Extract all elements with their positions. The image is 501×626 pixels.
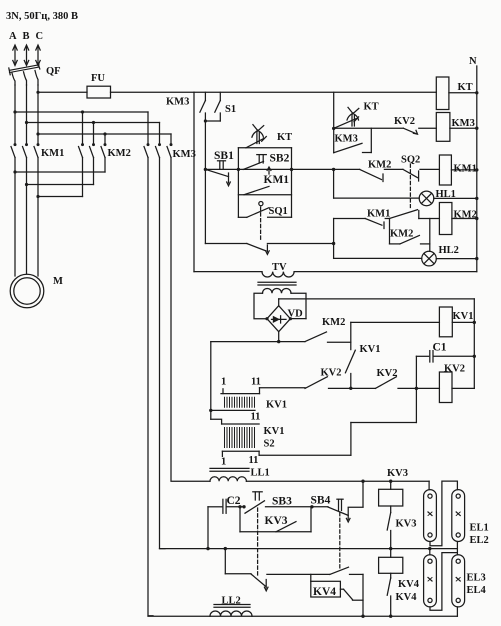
label KM1 (self-hold) [264, 174, 290, 186]
contactor KM3 main contacts [144, 112, 173, 158]
label KV4 (coil) [398, 579, 420, 590]
wire phase B drop with arrows [24, 45, 28, 66]
coil KV2 [439, 372, 474, 403]
svg-text:FU: FU [91, 73, 105, 84]
contactor KM2 main contacts [79, 112, 107, 197]
svg-text:KM2: KM2 [390, 229, 413, 240]
svg-text:KM3: KM3 [173, 149, 196, 160]
label KV2 (KM3 branch) [394, 116, 415, 127]
svg-text:KM1: KM1 [264, 174, 290, 186]
rectifier bridge VD [265, 306, 292, 332]
svg-text:C: C [36, 31, 44, 42]
svg-text:S1: S1 [225, 104, 236, 115]
label 11 (lower winding) [249, 455, 259, 466]
ladder left bus x238.4 [237, 148, 240, 218]
left lead vertical x210.8 [211, 342, 222, 424]
svg-text:KV2: KV2 [394, 116, 415, 127]
label N [469, 56, 477, 67]
svg-text:HL1: HL1 [436, 189, 456, 200]
lamp EL2 bottom stub [456, 542, 458, 549]
coil KT [436, 77, 449, 110]
bottom wire (y616.2) [148, 615, 457, 617]
transformer TV secondary winding [263, 288, 292, 293]
svg-text:SB4: SB4 [311, 495, 331, 507]
label 11 (between windings) [251, 412, 261, 423]
lamp branch HL1 (y198.1) [334, 197, 479, 200]
TV secondary lead left [254, 293, 267, 319]
ganged contact SB4' (row2) [330, 567, 363, 574]
pushbutton SB3 (NC) [245, 492, 314, 513]
label KM2 (coil) [454, 210, 477, 221]
transformer TV core [258, 282, 296, 285]
contact KV4 (after box) [344, 589, 364, 600]
contact KV2 (NO, KM3 branch) [403, 128, 436, 134]
svg-text:EL3: EL3 [467, 573, 486, 584]
label KV3 (self-hold) [265, 515, 288, 527]
label KV1 (contact) [360, 344, 381, 355]
svg-text:1: 1 [221, 457, 226, 468]
wire phase A drop with arrows [13, 45, 17, 66]
phase label A [9, 31, 17, 42]
transformer TV primary winding [262, 272, 294, 277]
label QF [46, 66, 61, 77]
svg-text:KT: KT [277, 132, 292, 143]
lamp EL4 top stub [456, 549, 458, 555]
contact KM2 (NC, HL2 sub-branch) [390, 219, 430, 252]
inductor LL2 core [214, 605, 250, 608]
series link EL3-EL4 [430, 553, 457, 611]
contact KV3 (NO vertical) [387, 513, 392, 551]
KM3 coil branch wire (y128.2) [334, 127, 404, 129]
fluorescent lamp EL1 [424, 490, 437, 542]
label C1 [433, 342, 447, 354]
row2 wire (y548.6) [160, 547, 458, 550]
svg-text:EL2: EL2 [470, 535, 489, 546]
svg-text:A: A [9, 31, 17, 42]
reversing crossover wire A-C (y172) [13, 170, 105, 173]
relay winding KV1 upper (taps 1-11) [221, 388, 305, 408]
bus rail B feed (y122.5) [25, 121, 160, 124]
svg-text:11: 11 [251, 412, 261, 423]
svg-text:C2: C2 [227, 495, 241, 507]
fluorescent lamp EL2 [452, 490, 465, 542]
self-hold contact KV3 (parallel SB3) [238, 505, 311, 532]
row1 riser x363 [362, 481, 364, 507]
wire phase C to KM1 [37, 85, 39, 143]
svg-text:KM3: KM3 [452, 118, 475, 129]
fluorescent lamp EL4 [452, 555, 465, 607]
relay winding KV1 lower (S2) [222, 424, 260, 457]
right bus vertical x474.3 [473, 299, 475, 389]
svg-text:KV1: KV1 [266, 400, 287, 411]
svg-text:KV3: KV3 [265, 515, 288, 527]
label KV1 (coil) [453, 311, 474, 322]
pushbutton SB2 (NO on rail) [243, 155, 271, 174]
phase label C [36, 31, 44, 42]
ladder right bus x291.5 [290, 148, 293, 218]
time contact KT (NC with flag, KM3 coil branch) [334, 107, 359, 128]
label KM3 (coil) [452, 118, 475, 129]
pushbutton SB1 (NC) [204, 161, 231, 186]
winding KV1 upper bottom lead [209, 409, 255, 412]
svg-text:KV4: KV4 [313, 586, 336, 598]
mechanical link SQ2 (dashed) [409, 164, 411, 208]
label KM3 (power bank) [173, 149, 196, 160]
coil KM3 [436, 113, 478, 142]
label KV2 (coil) [444, 364, 465, 375]
label KM2 (HL2 sub-branch) [390, 229, 413, 240]
label KM2 (KV1 row) [322, 317, 345, 328]
svg-text:KV4: KV4 [396, 592, 418, 603]
coil KV4 [379, 549, 403, 578]
label EL3 [467, 573, 486, 584]
svg-text:C1: C1 [433, 342, 447, 354]
KV1 coil feed wire (y322.4) [351, 322, 440, 349]
label EL1 [470, 523, 489, 534]
label SB1 [214, 150, 234, 162]
label SB2 [270, 153, 290, 165]
svg-text:KM3: KM3 [166, 97, 189, 108]
label S2 [264, 439, 275, 450]
label KT (coil) [458, 82, 473, 93]
neutral rail N [476, 66, 478, 272]
wire S1 output down [204, 121, 206, 244]
series link EL1-EL2 [430, 481, 457, 546]
contactor KM1 main contacts [11, 143, 40, 196]
label VD [288, 309, 304, 320]
svg-text:KV4: KV4 [398, 579, 420, 590]
control feed rail (y92.3) continuation to KT coil [194, 91, 478, 94]
label HL2 [439, 245, 459, 256]
label KM3 (upper) [166, 97, 189, 108]
label KM1 (coil) [454, 164, 477, 175]
svg-text:SB3: SB3 [272, 496, 292, 508]
label KV1 (upper winding) [266, 400, 287, 411]
KM3 feeder wire 1 (to bottom line) [148, 158, 153, 616]
signal lamp HL1 [419, 191, 434, 206]
svg-text:KV3: KV3 [387, 468, 408, 479]
label FU [91, 73, 105, 84]
row2 control drop x225.3 [225, 549, 251, 574]
contact KM1 (NO, HL2 chain) [365, 219, 389, 229]
label SB4 [311, 495, 331, 507]
label KV4 (in box) [313, 586, 336, 598]
svg-text:EL4: EL4 [467, 585, 487, 596]
label KV1 (lower winding) [264, 426, 285, 437]
svg-text:EL1: EL1 [470, 523, 489, 534]
mechanical link SB3 (dashed) [257, 508, 259, 577]
wire tap x333.7 from rail [332, 92, 335, 152]
label KV4 (contact) [396, 592, 418, 603]
coil KM1 [439, 155, 478, 185]
label SB3 [272, 496, 292, 508]
contact KM2 (NC, KM1 coil row) [360, 169, 383, 181]
svg-text:1: 1 [221, 377, 226, 388]
label KM1 [41, 148, 64, 159]
self-hold contact KM1 (branch y194.7) [238, 186, 291, 194]
svg-text:VD: VD [288, 309, 304, 320]
label S1 [225, 104, 236, 115]
label KV2 (right contact) [377, 368, 398, 379]
svg-text:KV2: KV2 [444, 364, 465, 375]
KM3 feeder wire 2 (to row2 line) [160, 158, 166, 549]
svg-text:S2: S2 [264, 439, 275, 450]
KM3 feeder wire 3 (to LL1 line) [171, 158, 210, 482]
lamp EL1 top stub [428, 481, 430, 489]
coil KM2 [439, 203, 478, 235]
label KM2 [108, 148, 131, 159]
svg-text:KM2: KM2 [108, 148, 131, 159]
svg-text:QF: QF [46, 66, 61, 77]
label LL1 [251, 468, 270, 479]
label KV3 (contact) [396, 519, 417, 530]
bus rail C feed (y134) [36, 132, 171, 135]
time relay contact KT (NC, branch y147.8) [238, 125, 291, 148]
svg-text:KV1: KV1 [453, 311, 474, 322]
svg-text:LL1: LL1 [251, 468, 270, 479]
wire phase B to KM1 [26, 85, 28, 143]
lamp EL3 top stub [429, 549, 431, 555]
svg-text:M: M [53, 276, 63, 287]
fluorescent lamp EL3 [424, 555, 437, 607]
svg-text:KV2: KV2 [321, 368, 342, 379]
svg-text:KM3: KM3 [335, 134, 358, 145]
label EL2 [470, 535, 489, 546]
svg-text:KM2: KM2 [368, 160, 391, 171]
svg-text:KT: KT [458, 82, 473, 93]
transformer TV primary wire right to N [294, 271, 477, 273]
motor M [10, 274, 44, 308]
inductor LL2 winding [210, 611, 252, 616]
wire phase C drop with arrows [36, 45, 40, 66]
limit switch SQ1 (branch y217.3) [238, 202, 291, 218]
right drop x363 to bottom line [361, 574, 364, 618]
bus x333.6 lower segment (row4 to HL2 row) [333, 219, 335, 259]
reversing crossover wire C-A (y196.5) [36, 195, 82, 198]
bus rail A feed (y112) [13, 110, 148, 113]
label KV2 (left contact) [321, 368, 342, 379]
label KV3 (coil) [387, 468, 408, 479]
svg-text:KM1: KM1 [41, 148, 64, 159]
lamp EL4 bottom stub [456, 607, 458, 616]
ganged contact SQ1' on TV feed (y243.5) [205, 242, 335, 255]
fuse FU [87, 86, 194, 98]
control rail (y169.4) [205, 168, 403, 170]
label KT (KM3 branch) [364, 102, 379, 113]
self-hold contact KM3 [334, 128, 372, 153]
label SQ2 [401, 155, 420, 166]
svg-text:11: 11 [251, 377, 261, 388]
svg-text:KT: KT [364, 102, 379, 113]
label M [53, 276, 63, 287]
svg-text:KV1: KV1 [360, 344, 381, 355]
phase label B [23, 31, 30, 42]
label KM1 (row4) [367, 209, 390, 220]
circuit breaker QF [9, 63, 40, 85]
bus x333.6 upper segment (rail to HL1 row) [332, 168, 335, 198]
label 1 (lower winding) [221, 457, 226, 468]
label 11 (upper winding) [251, 377, 261, 388]
pushbutton SB4 (NO) [312, 499, 363, 522]
limit switch SQ2 (KM1 coil row) [403, 169, 439, 181]
ganged contact KV3' (row2) [251, 574, 330, 591]
svg-text:KM2: KM2 [454, 210, 477, 221]
wire C-phase tap to FU / control rail [36, 91, 87, 94]
svg-text:SB2: SB2 [270, 153, 290, 165]
label TV [272, 262, 287, 273]
TV secondary lead right [290, 293, 306, 318]
row4 wire (y218.5) [334, 218, 366, 220]
label SQ1 [269, 206, 288, 217]
inductor LL1 winding [210, 477, 246, 482]
transformer TV primary wire left [194, 271, 262, 273]
switch S1 (two poles) [200, 92, 220, 122]
contact KM2 (NO, KV1 coil row) [305, 332, 351, 342]
ganged contact SQ2' (row4) [390, 210, 440, 219]
svg-text:N: N [469, 56, 477, 67]
coil KV1 [439, 307, 476, 337]
reversing crossover wire B-B (y184.5) [25, 183, 94, 186]
label EL4 [467, 585, 487, 596]
mechanical link SB4 (dashed) [339, 513, 341, 570]
svg-text:KV3: KV3 [396, 519, 417, 530]
label C2 [227, 495, 241, 507]
label KM3 (aux contact) [335, 134, 358, 145]
contact KV1 (NO vertical) [345, 350, 355, 390]
svg-text:11: 11 [249, 455, 259, 466]
svg-text:KM1: KM1 [454, 164, 477, 175]
supply label 3N,50Hz,380V [6, 11, 78, 22]
svg-text:HL2: HL2 [439, 245, 459, 256]
wire phase A to KM1 [14, 85, 16, 143]
label KM2 (row3) [368, 160, 391, 171]
svg-text:KV2: KV2 [377, 368, 398, 379]
svg-text:SQ1: SQ1 [269, 206, 288, 217]
signal lamp HL2 [422, 251, 437, 266]
capacitor C2 branch [208, 499, 246, 548]
lamp feed wire (y481.2) [246, 480, 429, 483]
capacitor C1 branch [416, 351, 476, 389]
label LL2 [222, 596, 241, 607]
svg-text:B: B [23, 31, 30, 42]
label 1 (upper winding) [221, 377, 226, 388]
DC plus bus (y298.9) [279, 299, 475, 306]
svg-text:KM1: KM1 [367, 209, 390, 220]
motor feeder wires [15, 172, 38, 276]
S2 return staircase wire [259, 388, 416, 455]
svg-text:KM2: KM2 [322, 317, 345, 328]
KV2 contact row wire (y388.4) [305, 377, 439, 390]
svg-text:KV1: KV1 [264, 426, 285, 437]
contact KV4 (NO vertical) [387, 578, 392, 618]
DC minus bus (y341.6) [211, 332, 305, 344]
wire left frame vertical x194 [193, 92, 195, 271]
inductor LL1 core [210, 468, 249, 471]
coil KV3 [379, 481, 403, 512]
mechanical link SQ1 (dashed) [260, 207, 262, 241]
svg-text:3N, 50Гц, 380 В: 3N, 50Гц, 380 В [6, 11, 78, 22]
svg-text:TV: TV [272, 262, 287, 273]
contact block KV4 (boxed) [311, 574, 344, 597]
label KT (branch) [277, 132, 292, 143]
lamp branch HL2 (y258.5) [334, 257, 479, 260]
label HL1 [436, 189, 456, 200]
